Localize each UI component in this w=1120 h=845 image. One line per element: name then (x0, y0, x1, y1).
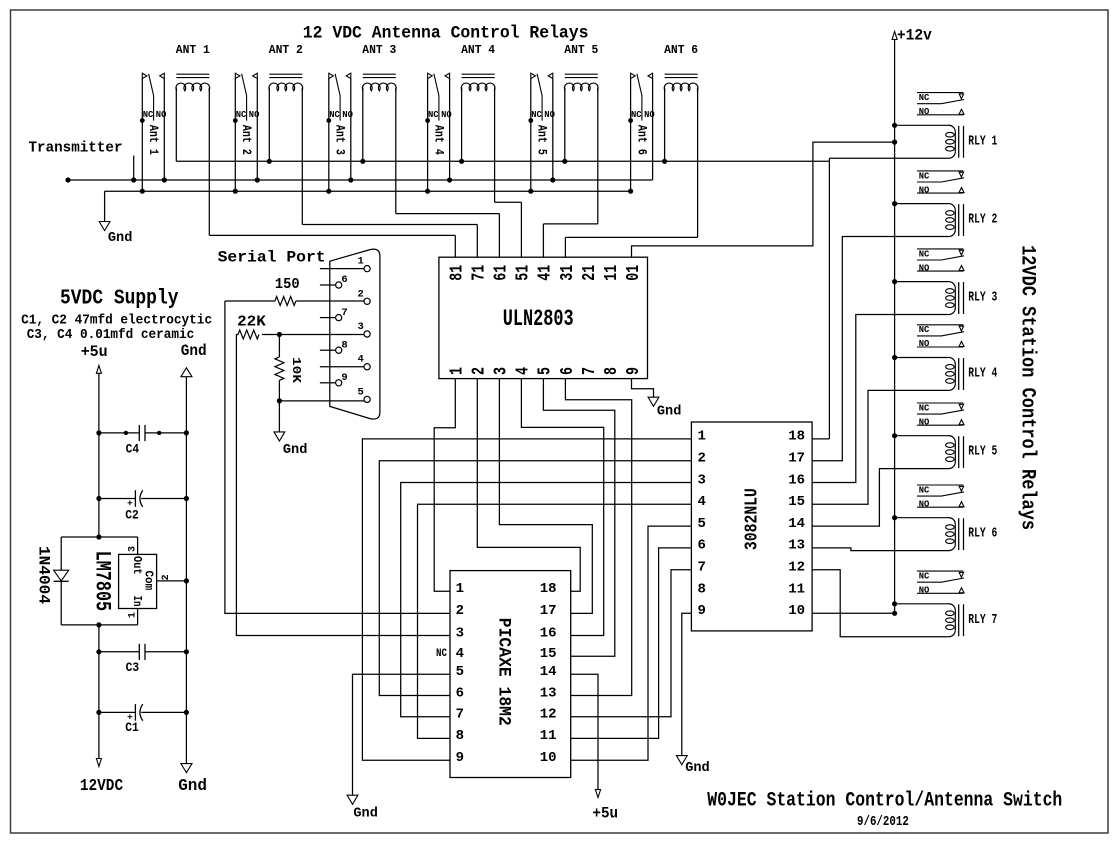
svg-text:10K: 10K (289, 357, 302, 383)
svg-text:NO: NO (919, 586, 930, 596)
svg-text:NO: NO (249, 109, 260, 120)
svg-text:3: 3 (456, 625, 464, 641)
svg-text:1: 1 (357, 256, 363, 268)
svg-text:8: 8 (456, 728, 464, 744)
svg-text:10: 10 (788, 603, 805, 619)
svg-text:81: 81 (448, 265, 468, 281)
svg-text:C3: C3 (126, 661, 140, 675)
svg-text:12: 12 (540, 707, 557, 723)
svg-text:11: 11 (540, 728, 557, 744)
svg-text:NC: NC (531, 109, 542, 120)
svg-text:17: 17 (788, 451, 805, 467)
svg-text:Gnd: Gnd (283, 442, 308, 458)
svg-text:NO: NO (919, 339, 930, 349)
svg-text:9: 9 (698, 603, 706, 619)
svg-text:1: 1 (128, 612, 139, 618)
svg-text:NO: NO (919, 417, 930, 427)
svg-text:Gnd: Gnd (178, 776, 207, 795)
svg-text:RLY 3: RLY 3 (968, 291, 997, 306)
svg-text:11: 11 (788, 581, 805, 597)
svg-text:21: 21 (580, 265, 600, 281)
svg-text:5: 5 (456, 664, 464, 680)
svg-text:Out: Out (130, 556, 143, 575)
svg-text:14: 14 (540, 664, 557, 680)
svg-text:3: 3 (698, 472, 706, 488)
svg-text:+5u: +5u (592, 805, 618, 823)
svg-text:NO: NO (919, 263, 930, 273)
svg-text:2: 2 (470, 367, 490, 375)
svg-text:NC: NC (919, 171, 930, 181)
svg-text:NC: NC (919, 249, 930, 259)
svg-text:Transmitter: Transmitter (29, 139, 123, 156)
svg-text:ULN2803: ULN2803 (503, 306, 574, 333)
svg-text:7: 7 (456, 707, 464, 723)
svg-text:RLY 7: RLY 7 (968, 613, 997, 628)
svg-text:NC: NC (919, 572, 930, 582)
svg-text:Ant 3: Ant 3 (333, 125, 347, 155)
svg-text:6: 6 (456, 685, 464, 701)
svg-text:+12v: +12v (897, 27, 933, 45)
svg-text:NC: NC (919, 93, 930, 103)
svg-text:12VDC: 12VDC (80, 776, 123, 795)
svg-text:RLY 2: RLY 2 (968, 213, 997, 228)
svg-text:Gnd: Gnd (353, 806, 378, 822)
svg-text:41: 41 (536, 265, 556, 281)
svg-text:7: 7 (341, 307, 347, 319)
svg-text:In: In (130, 596, 143, 607)
svg-text:NO: NO (441, 109, 452, 120)
svg-text:NC: NC (919, 485, 930, 495)
svg-text:9: 9 (341, 372, 347, 384)
svg-text:9/6/2012: 9/6/2012 (857, 815, 909, 830)
svg-text:71: 71 (470, 265, 490, 281)
svg-text:4: 4 (456, 646, 464, 662)
svg-text:1: 1 (448, 367, 468, 375)
svg-text:150: 150 (275, 277, 300, 293)
svg-text:9: 9 (456, 750, 464, 766)
svg-text:ANT 1: ANT 1 (176, 44, 210, 57)
svg-text:7: 7 (580, 367, 600, 375)
svg-text:18: 18 (788, 429, 805, 445)
svg-text:NO: NO (919, 107, 930, 117)
svg-text:NC: NC (428, 109, 439, 120)
svg-text:Ant 4: Ant 4 (431, 125, 445, 155)
svg-text:22K: 22K (237, 315, 266, 331)
svg-text:2: 2 (698, 451, 706, 467)
svg-text:01: 01 (624, 265, 644, 281)
svg-text:5: 5 (698, 516, 706, 532)
svg-text:2: 2 (456, 603, 464, 619)
svg-text:3: 3 (357, 321, 363, 333)
svg-text:C4: C4 (126, 443, 140, 457)
svg-text:3082NLU: 3082NLU (743, 488, 763, 550)
svg-text:5: 5 (357, 386, 363, 398)
svg-text:4: 4 (357, 354, 363, 366)
svg-text:6: 6 (341, 274, 347, 286)
svg-text:NC: NC (329, 109, 340, 120)
svg-text:Ant 2: Ant 2 (239, 125, 253, 155)
svg-text:Gnd: Gnd (108, 230, 132, 246)
svg-text:+5u: +5u (81, 343, 108, 361)
svg-text:NO: NO (544, 109, 555, 120)
svg-text:11: 11 (602, 265, 622, 281)
svg-text:C3, C4 0.01mfd ceramic: C3, C4 0.01mfd ceramic (27, 327, 195, 343)
svg-text:PICAXE 18M2: PICAXE 18M2 (494, 618, 514, 726)
svg-text:13: 13 (540, 685, 557, 701)
svg-text:NO: NO (919, 499, 930, 509)
svg-text:4: 4 (514, 367, 534, 375)
svg-text:ANT 6: ANT 6 (664, 44, 698, 57)
svg-text:1N4004: 1N4004 (34, 546, 52, 604)
svg-text:12: 12 (788, 560, 805, 576)
svg-text:NO: NO (644, 109, 655, 120)
svg-text:51: 51 (514, 265, 534, 281)
svg-text:NC: NC (143, 109, 154, 120)
svg-text:Ant 1: Ant 1 (146, 125, 160, 155)
svg-text:Ant 5: Ant 5 (535, 125, 549, 155)
svg-text:C1: C1 (125, 721, 139, 735)
svg-text:LM7805: LM7805 (90, 551, 115, 612)
svg-text:7: 7 (698, 560, 706, 576)
svg-text:31: 31 (558, 265, 578, 281)
svg-text:Gnd: Gnd (181, 342, 207, 360)
svg-text:ANT 2: ANT 2 (269, 44, 303, 57)
svg-text:NO: NO (156, 109, 167, 120)
svg-text:Gnd: Gnd (657, 404, 682, 420)
svg-text:13: 13 (788, 538, 805, 554)
svg-text:1: 1 (456, 581, 464, 597)
svg-text:5VDC Supply: 5VDC Supply (60, 287, 179, 310)
svg-text:NO: NO (919, 185, 930, 195)
svg-text:3: 3 (127, 546, 138, 552)
svg-text:5: 5 (536, 367, 556, 375)
svg-text:1: 1 (698, 429, 706, 445)
svg-text:18: 18 (540, 581, 557, 597)
svg-text:NC: NC (631, 109, 642, 120)
svg-text:RLY 1: RLY 1 (968, 134, 997, 149)
svg-text:6: 6 (558, 367, 578, 375)
svg-text:12 VDC Antenna Control Relays: 12 VDC Antenna Control Relays (303, 23, 589, 43)
svg-text:16: 16 (788, 472, 805, 488)
svg-text:3: 3 (492, 367, 512, 375)
svg-text:ANT 4: ANT 4 (461, 44, 495, 57)
svg-text:Gnd: Gnd (685, 760, 710, 776)
svg-text:15: 15 (540, 646, 557, 662)
svg-text:4: 4 (698, 494, 706, 510)
svg-text:C2: C2 (125, 509, 139, 523)
svg-text:12VDC Station Control Relays: 12VDC Station Control Relays (1016, 245, 1039, 530)
svg-text:NC: NC (919, 325, 930, 335)
svg-text:NC: NC (919, 403, 930, 413)
svg-text:8: 8 (602, 367, 622, 375)
svg-text:NO: NO (342, 109, 353, 120)
svg-text:2: 2 (357, 288, 363, 300)
svg-text:RLY 4: RLY 4 (968, 367, 997, 382)
svg-text:2: 2 (161, 574, 172, 580)
svg-text:NC: NC (436, 648, 447, 660)
svg-text:14: 14 (788, 516, 805, 532)
svg-text:Com: Com (142, 570, 155, 590)
svg-text:16: 16 (540, 625, 557, 641)
svg-text:Ant 6: Ant 6 (634, 125, 648, 155)
svg-text:6: 6 (698, 538, 706, 554)
svg-text:9: 9 (624, 367, 644, 375)
svg-text:10: 10 (540, 750, 557, 766)
svg-text:8: 8 (341, 339, 347, 351)
svg-text:W0JEC Station Control/Antenna: W0JEC Station Control/Antenna Switch (707, 790, 1062, 813)
svg-text:17: 17 (540, 603, 557, 619)
svg-text:NC: NC (236, 109, 247, 120)
svg-text:RLY 6: RLY 6 (968, 527, 997, 542)
svg-text:C1, C2 47mfd electrocytic: C1, C2 47mfd electrocytic (21, 313, 212, 329)
svg-text:RLY 5: RLY 5 (968, 445, 997, 460)
svg-text:ANT 3: ANT 3 (362, 44, 396, 57)
svg-text:ANT 5: ANT 5 (564, 44, 598, 57)
svg-text:8: 8 (698, 581, 706, 597)
svg-text:15: 15 (788, 494, 805, 510)
svg-text:61: 61 (492, 265, 512, 281)
svg-text:Serial Port: Serial Port (218, 249, 326, 267)
